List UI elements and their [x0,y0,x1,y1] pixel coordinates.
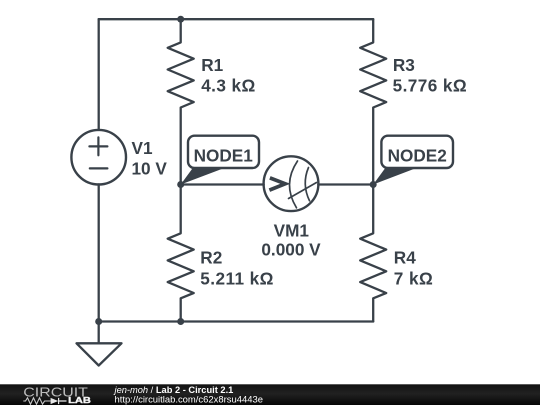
voltage source V1 [71,130,126,185]
junction dot node2 [370,181,377,188]
resistor R2 [168,185,194,322]
svg-text:R3: R3 [393,55,415,75]
wire node1 to voltmeter [181,183,264,185]
wire voltmeter to node2 [318,183,373,185]
svg-text:NODE1: NODE1 [194,145,254,165]
junction dot R1 top [177,16,184,23]
junction dot ground [95,318,102,325]
svg-text:V1: V1 [132,138,153,158]
svg-text:5.211 kΩ: 5.211 kΩ [200,269,274,289]
logo resistor squiggle [23,398,50,404]
svg-text:R4: R4 [394,248,416,268]
resistor R1 [168,19,194,184]
svg-text:http://circuitlab.com/c62x8rsu: http://circuitlab.com/c62x8rsu4443e [115,394,263,405]
svg-text:5.776 kΩ: 5.776 kΩ [393,76,468,96]
svg-text:10 V: 10 V [132,158,168,178]
ground [77,322,122,366]
svg-text:0.000 V: 0.000 V [261,240,321,260]
wire left rail lower [98,184,100,321]
svg-text:4.3 kΩ: 4.3 kΩ [201,76,256,96]
svg-text:VM1: VM1 [274,221,310,241]
flag tail NODE2 [373,167,419,185]
wire left rail upper [98,19,100,130]
resistor R4 [360,185,386,322]
flag box NODE1 [188,136,259,168]
junction dot node1 [177,181,184,188]
svg-text:R1: R1 [201,55,223,75]
voltmeter arrow glyph [269,178,285,190]
junction dot R2 bottom [177,318,184,325]
logo diode [51,398,59,404]
svg-text:NODE2: NODE2 [388,145,447,165]
wire top rail [99,18,374,20]
svg-text:LAB: LAB [68,395,91,405]
svg-text:7 kΩ: 7 kΩ [394,269,433,289]
flag box NODE2 [381,136,453,168]
wire bottom rail [99,320,374,322]
flag tail NODE1 [181,167,227,185]
resistor R3 [360,19,386,184]
voltmeter VM1 [264,156,319,211]
svg-text:R2: R2 [200,248,222,268]
